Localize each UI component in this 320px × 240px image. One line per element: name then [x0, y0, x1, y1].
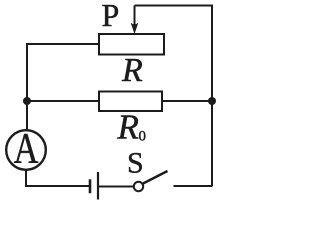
wire left rail [26, 44, 28, 130]
rheostat R body [99, 34, 164, 55]
wire R0 right lead [162, 100, 212, 102]
wire battery to switch [98, 186, 134, 188]
wire ammeter to bottom-left corner [26, 170, 90, 186]
svg-text:R: R [121, 52, 143, 89]
wire R0 left lead [27, 100, 99, 102]
svg-text:P: P [102, 0, 120, 33]
wire switch to right rail [174, 185, 213, 187]
ammeter A1 body [6, 130, 46, 170]
wire top [135, 5, 214, 7]
svg-text:A: A [14, 125, 39, 172]
switch S lever [143, 171, 168, 184]
battery cell short plate [89, 179, 92, 193]
rheostat wiper arrow [131, 6, 139, 35]
label A (ammeter) [14, 125, 39, 172]
wire top-left to rheostat left lead [26, 43, 99, 45]
node junction left [23, 97, 31, 105]
node junction right [208, 97, 216, 105]
wire right rail [211, 5, 213, 187]
svg-text:S: S [127, 147, 144, 180]
battery cell long plate [97, 172, 99, 200]
resistor R0 body [99, 92, 162, 112]
switch S contact circle [134, 182, 143, 191]
svg-text:0: 0 [139, 129, 147, 145]
svg-text:R: R [117, 108, 139, 147]
